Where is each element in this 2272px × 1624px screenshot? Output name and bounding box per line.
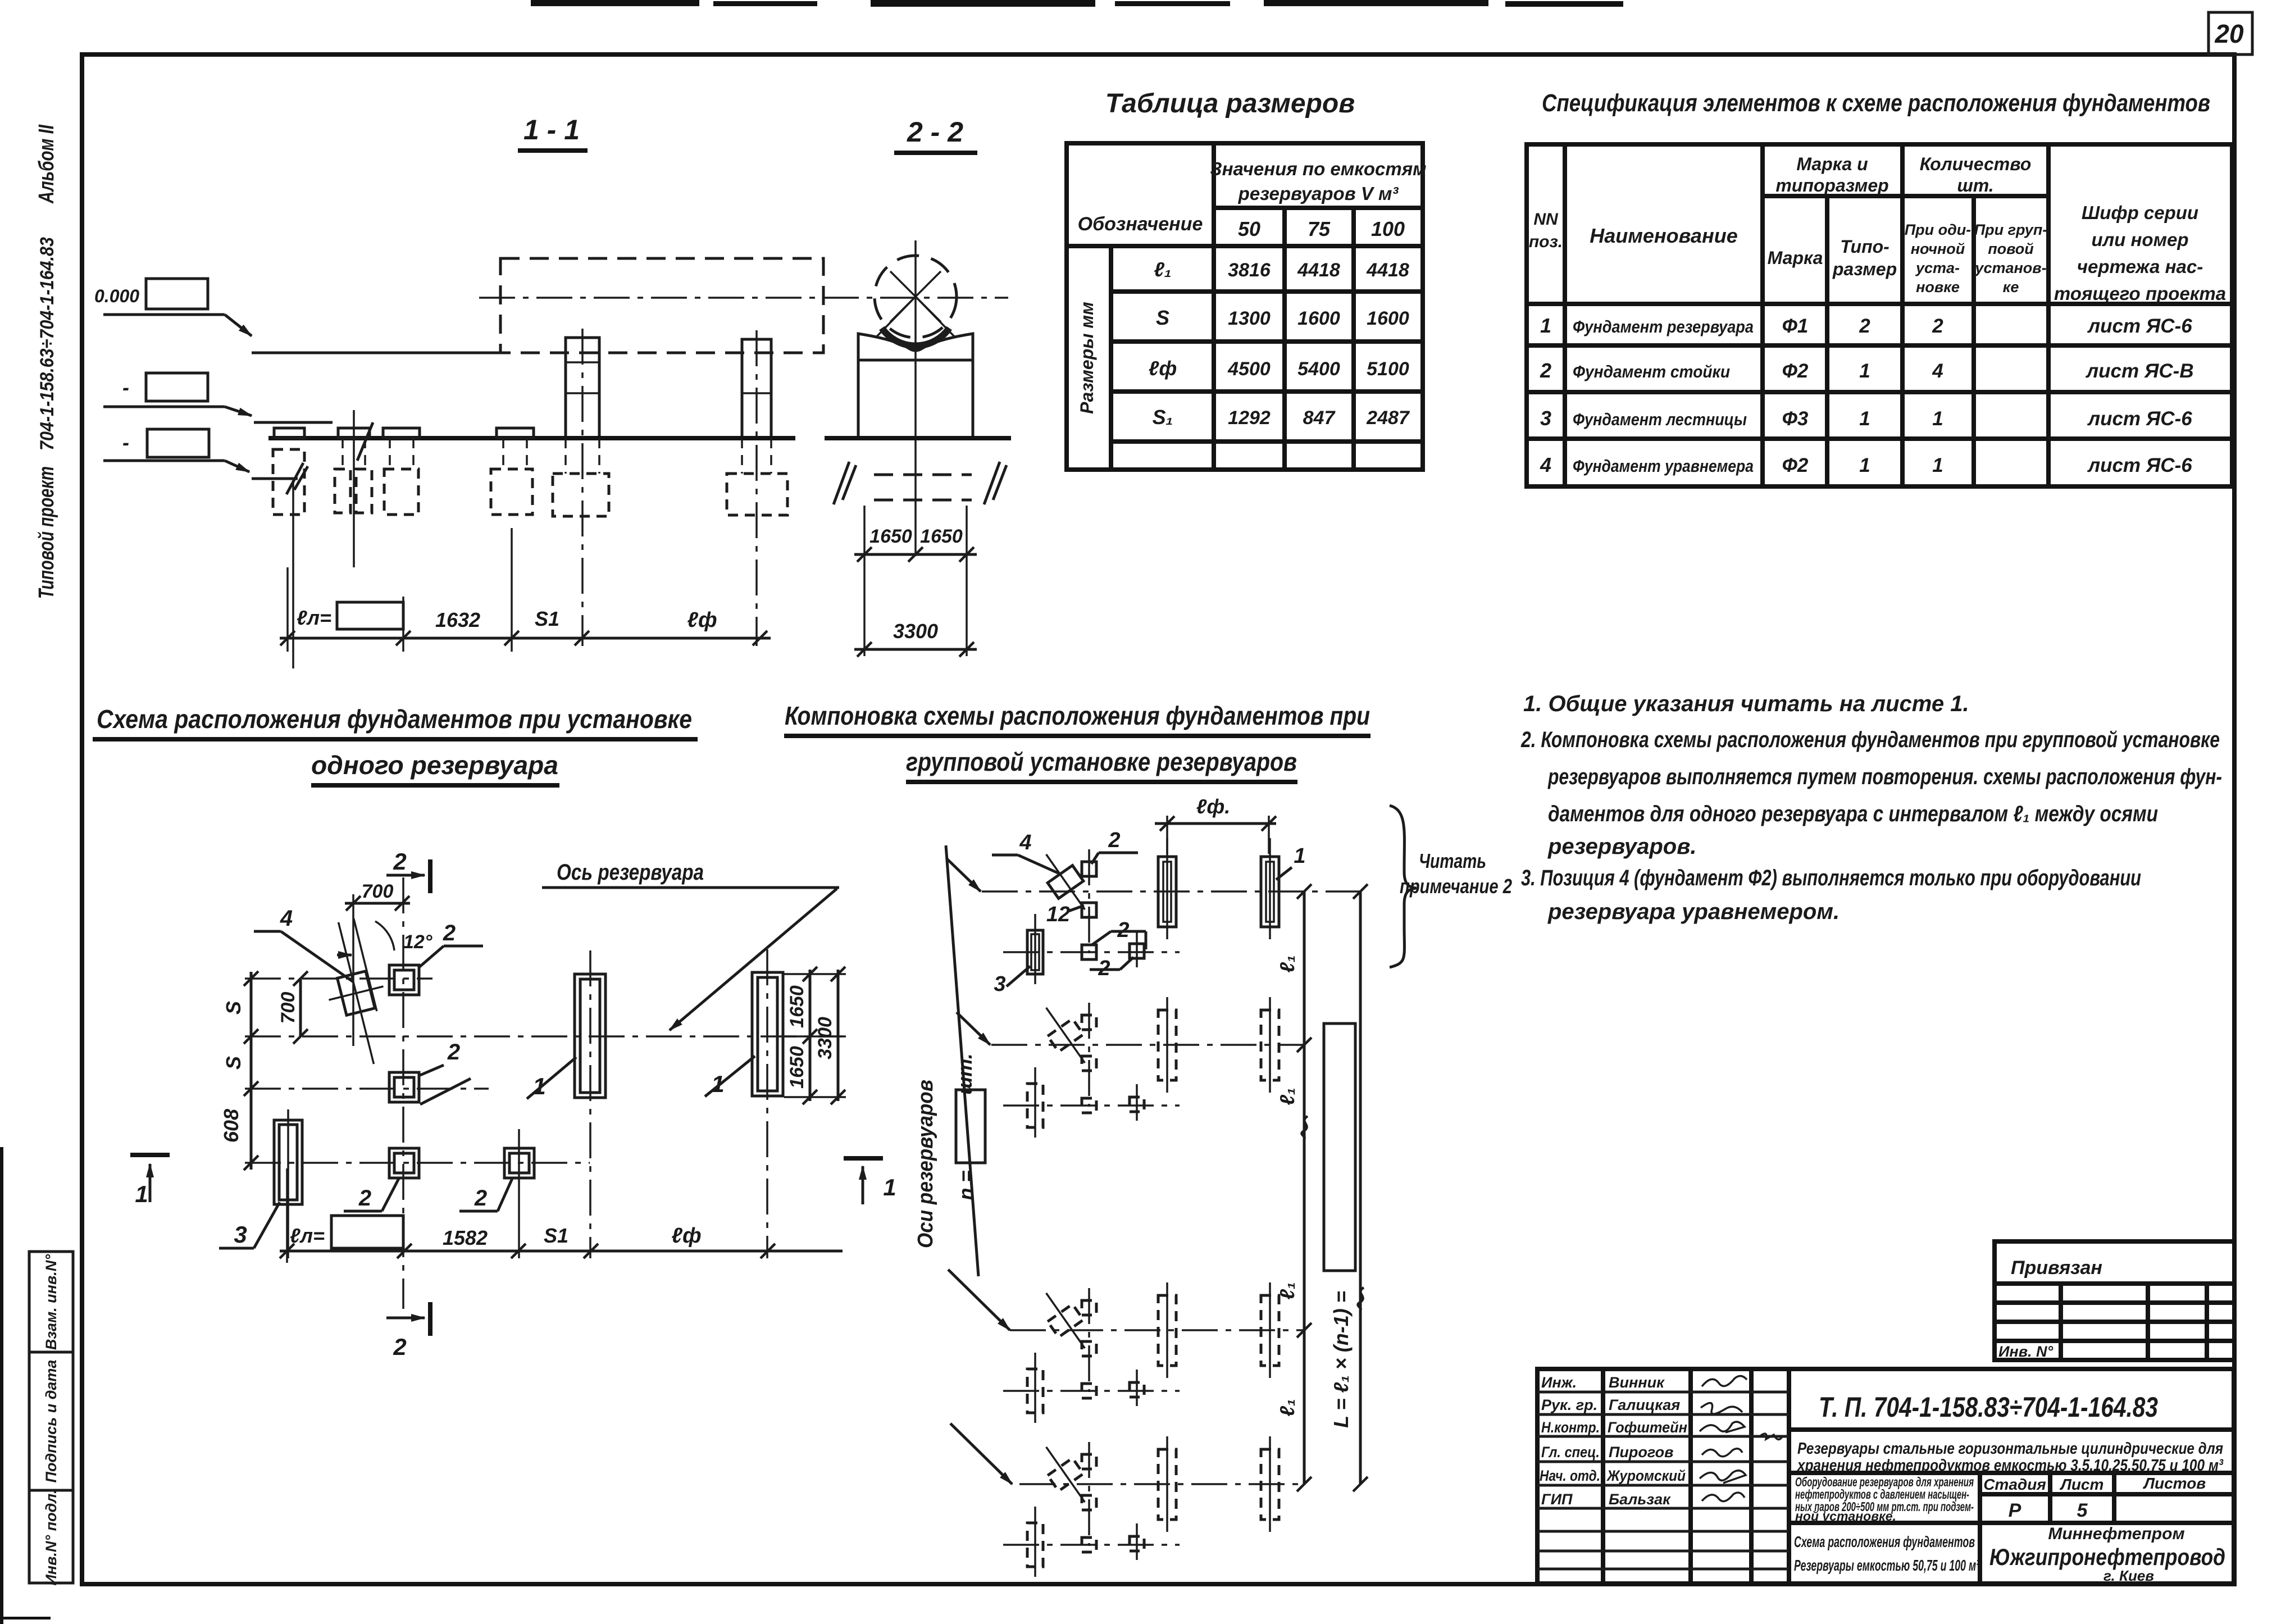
svg-text:размер: размер xyxy=(1832,259,1897,279)
svg-text:1600: 1600 xyxy=(1297,308,1340,329)
scheme 2 row 3 foundation F1 a xyxy=(1158,1282,1176,1378)
svg-text:3: 3 xyxy=(994,972,1005,996)
svg-text:2: 2 xyxy=(1540,359,1551,382)
scan artifact: top edge streaks xyxy=(531,0,1623,7)
leader 3 xyxy=(219,1202,280,1248)
leader 2 row C xyxy=(420,1040,471,1104)
svg-text:даментов для одного резерву: даментов для одного резервуара с интерва… xyxy=(1548,802,2158,826)
leader 2 row D right xyxy=(459,1179,512,1211)
scheme 2 row 4 square 2 below axis xyxy=(1082,1495,1096,1510)
svg-text:Схема расположения фундаментов: Схема расположения фундаментов при устан… xyxy=(97,704,692,734)
svg-text:2: 2 xyxy=(447,1040,460,1065)
foundation F3 stairs (pos 3) xyxy=(274,1109,302,1258)
object description four lines xyxy=(1789,1475,2234,1523)
svg-text:1: 1 xyxy=(135,1181,148,1207)
svg-text:608: 608 xyxy=(220,1109,243,1143)
svg-text:Ф3: Ф3 xyxy=(1782,408,1809,430)
svg-text:2: 2 xyxy=(1932,315,1943,337)
scheme 2 left boundary line xyxy=(946,845,978,1276)
dimension extension verticals 2-2 xyxy=(864,506,967,656)
svg-text:ке: ке xyxy=(2003,279,2019,295)
svg-text:Южгипронефтепровод: Южгипронефтепровод xyxy=(1989,1544,2225,1570)
scheme 2 label 12 xyxy=(1046,903,1084,926)
row B main horizontal axis xyxy=(245,1035,843,1038)
scheme 2 row 3 tilted foundation pos 4 xyxy=(1033,1284,1097,1357)
svg-text:4500: 4500 xyxy=(1227,358,1271,380)
svg-text:-: - xyxy=(122,431,129,454)
svg-text:700: 700 xyxy=(362,881,394,902)
scheme 2 row 2 square 2 upper xyxy=(1082,1003,1096,1107)
angle 12 degrees xyxy=(337,921,432,955)
svg-text:ℓ₁: ℓ₁ xyxy=(1276,1282,1299,1299)
title block outer xyxy=(1537,1369,2234,1584)
left margin rotated stamp text xyxy=(35,124,58,599)
svg-text:ℓф: ℓф xyxy=(687,608,717,632)
svg-text:Т. П. 704-1-158.83÷704-1-164.8: Т. П. 704-1-158.83÷704-1-164.83 xyxy=(1819,1391,2158,1423)
scheme 2 label 1 xyxy=(1276,844,1306,880)
scheme 2 label 2 lower xyxy=(1090,957,1133,980)
scheme 2 label 4 xyxy=(992,831,1060,874)
scheme 2 row 1 square 2 upper xyxy=(1082,849,1096,953)
size table header texts xyxy=(1078,158,1427,240)
svg-text:Инв.N° подл.: Инв.N° подл. xyxy=(43,1489,60,1585)
svg-text:уста-: уста- xyxy=(1915,260,1960,276)
leader 2 top xyxy=(419,921,483,967)
svg-text:4: 4 xyxy=(1540,453,1551,476)
svg-text:5: 5 xyxy=(2077,1500,2088,1521)
scheme 2 row 4 square 2 sub-right xyxy=(1130,1523,1144,1560)
dimension line 1650/1650 xyxy=(854,526,977,562)
svg-text:типоразмер: типоразмер xyxy=(1775,175,1888,195)
section mark 1 right xyxy=(844,1158,896,1204)
svg-text:Шифр серии: Шифр серии xyxy=(2082,202,2198,223)
row C axis line xyxy=(245,1088,489,1090)
svg-text:700: 700 xyxy=(277,992,299,1024)
scheme 2 title line 1 xyxy=(784,701,1371,736)
svg-text:г. Киев: г. Киев xyxy=(2103,1567,2154,1584)
svg-text:Пирогов: Пирогов xyxy=(1609,1444,1673,1461)
svg-text:резервуаров выполняется путе: резервуаров выполняется путем повторения… xyxy=(1547,765,2222,789)
svg-text:новке: новке xyxy=(1916,279,1960,295)
scheme 1 title line 2 xyxy=(311,750,559,785)
svg-text:S1: S1 xyxy=(535,607,559,630)
spec row 3: фундамент лестницы xyxy=(1540,407,2192,430)
organization names xyxy=(1989,1525,2225,1584)
svg-text:установ-: установ- xyxy=(1974,260,2046,276)
scheme 2 row 1 axis with arrow xyxy=(947,859,1360,891)
scheme 2 row 4 axis with arrow xyxy=(950,1423,1304,1484)
scheme 2 label 2 upper xyxy=(1091,829,1138,864)
spec table grid xyxy=(1527,144,2232,486)
dimension label S1 xyxy=(535,607,559,630)
svg-text:75: 75 xyxy=(1308,217,1331,240)
scheme 2 row 2 square 2 sub-left xyxy=(1082,1098,1096,1113)
scheme 2 row 4 square 2 upper xyxy=(1082,1442,1096,1546)
tilted foundation pos 4 (F2 rotated 12deg) xyxy=(311,916,401,1071)
scheme 2 row 3 square 2 sub-left xyxy=(1082,1384,1096,1398)
sheet title two lines xyxy=(1794,1523,1980,1584)
leader 4 xyxy=(254,906,353,982)
left margin strip: Взам. инв.№ / Подпись и дата / Инв.№ подл. xyxy=(29,1252,73,1586)
section mark 2 top xyxy=(386,848,430,893)
svg-text:шт.: шт. xyxy=(1957,175,1993,195)
buried footing under right column (dashed) xyxy=(727,438,787,515)
svg-text:Фундамент стойки: Фундамент стойки xyxy=(1573,362,1730,381)
svg-text:5400: 5400 xyxy=(1297,358,1340,380)
foundation F2 square top row (pos 2) xyxy=(389,965,419,995)
svg-text:2: 2 xyxy=(1108,829,1120,852)
svg-text:ℓл=: ℓл= xyxy=(290,1224,325,1247)
spec row 1: фундамент резервуара xyxy=(1540,314,2192,337)
svg-text:4: 4 xyxy=(280,906,293,931)
size table row L1 xyxy=(1154,258,1409,281)
svg-text:Рук. гр.: Рук. гр. xyxy=(1541,1396,1597,1413)
top dimension 700 xyxy=(345,881,410,1046)
svg-text:2: 2 xyxy=(358,1186,371,1211)
scheme 2 row 2 sub-row axis xyxy=(1003,1104,1180,1107)
svg-text:1632: 1632 xyxy=(435,608,480,631)
size table rotated label Размеры мм xyxy=(1077,302,1097,414)
note brace Читать примечание 2 xyxy=(1390,806,1512,967)
svg-text:5100: 5100 xyxy=(1367,358,1409,380)
svg-text:Привязан: Привязан xyxy=(2011,1257,2102,1279)
elevation mark 2 with leader box xyxy=(103,373,252,416)
spec table header texts xyxy=(1529,154,2226,304)
svg-text:групповой установке резервуаро: групповой установке резервуаров xyxy=(906,747,1297,776)
svg-text:Типо-: Типо- xyxy=(1840,236,1889,257)
svg-text:2487: 2487 xyxy=(1366,407,1410,429)
scheme 2 top dimension lф xyxy=(1155,795,1276,854)
svg-text:Марка и: Марка и xyxy=(1796,154,1868,174)
reservoir outline dashed (section 1-1) xyxy=(500,258,823,353)
svg-text:1: 1 xyxy=(1540,314,1551,337)
level line 3 with break xyxy=(252,463,308,668)
row A axis line xyxy=(245,977,432,980)
scheme 2 row 2 axis with arrow xyxy=(957,1012,1304,1045)
bottom dimension line of section 1-1 xyxy=(280,631,771,645)
foundation F1 right (pos 1) xyxy=(752,949,783,1258)
vertical dimension 700 xyxy=(277,971,308,1044)
scheme 2 outer dimension chain L total xyxy=(1324,884,1368,1491)
reservoir axis line (dash-dot) xyxy=(479,297,1008,299)
notes paragraph xyxy=(1520,692,2222,924)
scheme 1 title line 1 xyxy=(93,704,698,739)
foundation F2 square row D right (pos 2) xyxy=(504,1129,534,1258)
svg-text:ℓ₁: ℓ₁ xyxy=(1276,1088,1299,1105)
section mark 1 left xyxy=(130,1155,170,1207)
scheme 2 title line 2 xyxy=(906,747,1297,782)
svg-text:Бальзак: Бальзак xyxy=(1609,1491,1671,1508)
svg-text:1650: 1650 xyxy=(920,526,963,547)
svg-text:тоящего проекта: тоящего проекта xyxy=(2054,283,2226,304)
staff signatures xyxy=(1700,1376,1747,1501)
scheme 2 row 1 square 2 sub-left xyxy=(1082,945,1096,959)
svg-text:лист ЯС-В: лист ЯС-В xyxy=(2085,360,2193,382)
svg-text:4: 4 xyxy=(1932,360,1943,382)
scheme 2 row 3 foundation F3 xyxy=(1027,1353,1043,1423)
svg-text:1: 1 xyxy=(1859,408,1870,430)
svg-text:лист ЯС-6: лист ЯС-6 xyxy=(2087,454,2192,476)
label Ось резервуара with leader xyxy=(542,860,839,1030)
foundation F2 square row D left (pos 2) xyxy=(389,1148,419,1178)
staff titles column xyxy=(1540,1374,1600,1508)
svg-text:12: 12 xyxy=(1046,903,1070,926)
svg-text:1650: 1650 xyxy=(786,1046,808,1089)
privyazan table xyxy=(1995,1241,2234,1360)
svg-text:Обозначение: Обозначение xyxy=(1078,213,1203,235)
reservoir circle dashed (section 2-2) xyxy=(875,256,957,338)
small saddle stub 2 on ground xyxy=(338,428,370,438)
project name two lines xyxy=(1760,1434,2234,1475)
section mark 2 bottom xyxy=(386,1302,430,1360)
support stand column left (F2 section) xyxy=(566,329,599,646)
scheme 2 row 2 foundation F1 a xyxy=(1158,997,1176,1093)
svg-text:Размеры мм: Размеры мм xyxy=(1077,302,1097,414)
svg-text:Лист: Лист xyxy=(2060,1476,2104,1493)
buried footing under stub 1 (dashed) xyxy=(273,449,304,515)
svg-text:или номер: или номер xyxy=(2091,229,2188,250)
project number big xyxy=(1789,1391,2234,1430)
scheme 2 row 1 sub-row axis xyxy=(1003,951,1180,953)
scheme 2 row 3 square 2 below axis xyxy=(1082,1341,1096,1356)
svg-text:Значения по емкостям: Значения по емкостям xyxy=(1210,158,1426,179)
svg-text:Журомский: Журомский xyxy=(1606,1467,1686,1484)
svg-text:1: 1 xyxy=(1932,408,1943,430)
svg-text:Миннефтепром: Миннефтепром xyxy=(2048,1525,2184,1543)
elevation mark 0.000 with leader box xyxy=(94,279,252,336)
svg-text:примечание 2: примечание 2 xyxy=(1400,875,1512,898)
page number box 20 xyxy=(2209,12,2252,54)
svg-text:1600: 1600 xyxy=(1367,308,1409,329)
scheme 2 label 2 bracket pair xyxy=(1092,918,1146,949)
saddle contact shading 2-2 xyxy=(882,328,949,345)
svg-text:Нач. отд.: Нач. отд. xyxy=(1540,1467,1600,1484)
svg-text:4418: 4418 xyxy=(1366,260,1409,281)
svg-text:ℓл=: ℓл= xyxy=(297,606,331,629)
svg-text:NN: NN xyxy=(1533,210,1559,229)
scan artifact: left edge line xyxy=(0,1147,51,1624)
scheme 2 row 1 foundation F1 a xyxy=(1158,838,1176,939)
scheme 2 inner dimension chain l1 xyxy=(1276,884,1312,1491)
svg-text:100: 100 xyxy=(1371,217,1405,240)
svg-text:3: 3 xyxy=(234,1221,247,1248)
scheme 2 row 3 square 2 sub-right xyxy=(1130,1370,1144,1406)
scheme 2 row 2 square 2 below axis xyxy=(1082,1056,1096,1071)
scheme 2 label 3 xyxy=(994,966,1030,996)
scheme 2 row 4 sub-row axis xyxy=(1003,1544,1180,1546)
ground line of section 1-1 xyxy=(268,422,795,461)
svg-text:ГИП: ГИП xyxy=(1541,1491,1573,1508)
size table row S xyxy=(1156,306,1409,329)
scheme 2 row 1 square 2 sub-right xyxy=(1130,931,1144,967)
spec table title xyxy=(1542,89,2210,117)
svg-text:1. Общие указания читать н: 1. Общие указания читать на листе 1. xyxy=(1523,692,1969,716)
level line at 0.000 xyxy=(252,352,506,354)
svg-text:1: 1 xyxy=(1859,454,1870,476)
dimension label box lл= xyxy=(297,602,403,629)
svg-text:Стадия: Стадия xyxy=(1983,1476,2046,1493)
size table title: Таблица размеров xyxy=(1105,89,1355,119)
svg-text:4418: 4418 xyxy=(1297,260,1340,281)
scheme 2 row 4 foundation F1 a xyxy=(1158,1436,1176,1532)
svg-text:S: S xyxy=(1156,306,1169,329)
svg-text:n =: n = xyxy=(954,1170,977,1200)
svg-text:Фундамент резервуара: Фундамент резервуара xyxy=(1573,317,1754,336)
svg-text:резервуаров.: резервуаров. xyxy=(1547,834,1697,859)
svg-text:1: 1 xyxy=(883,1174,896,1200)
svg-text:Количество: Количество xyxy=(1920,154,2032,174)
spec row 2: фундамент стойки xyxy=(1540,359,2194,382)
scheme 2 row 3 square 2 upper xyxy=(1082,1288,1096,1392)
svg-text:20: 20 xyxy=(2214,19,2244,48)
svg-text:ℓ₁: ℓ₁ xyxy=(1154,258,1171,281)
section title 1-1 xyxy=(518,114,588,151)
svg-text:1: 1 xyxy=(1294,844,1305,868)
svg-text:резервуара уравнемером.: резервуара уравнемером. xyxy=(1547,899,1840,924)
svg-text:50: 50 xyxy=(1238,217,1260,240)
svg-text:Инж.: Инж. xyxy=(1541,1374,1577,1391)
svg-text:поз.: поз. xyxy=(1529,233,1563,251)
scheme 2 row 4 tilted foundation pos 4 xyxy=(1033,1438,1097,1511)
stage/sheet mini table xyxy=(1980,1473,2234,1523)
small saddle stub 1 on ground xyxy=(274,428,304,438)
svg-text:Гл. спец.: Гл. спец. xyxy=(1541,1444,1600,1461)
svg-text:Спецификация элементов к схем: Спецификация элементов к схеме расположе… xyxy=(1542,89,2210,117)
scheme 2 row 2 tilted foundation pos 4 xyxy=(1033,999,1097,1071)
svg-text:Компоновка схемы расположения: Компоновка схемы расположения фундаменто… xyxy=(785,701,1370,730)
buried footing under stub 3 (dashed) xyxy=(384,438,418,515)
scheme1 bottom dimension line xyxy=(280,1168,843,1263)
svg-text:704-1-158.63÷704-1-164.83: 704-1-158.63÷704-1-164.83 xyxy=(37,237,58,451)
buried footing lines 2-2 (dashed) xyxy=(834,462,1007,504)
svg-text:ℓ₁: ℓ₁ xyxy=(1276,955,1299,972)
svg-text:Оси резервуаров: Оси резервуаров xyxy=(914,1080,937,1248)
svg-text:L = ℓ₁ × (n-1) =: L = ℓ₁ × (n-1) = xyxy=(1329,1291,1353,1428)
buried footings under stub 2 (dashed pair) xyxy=(335,410,372,567)
svg-text:Ф1: Ф1 xyxy=(1782,315,1809,337)
svg-text:3: 3 xyxy=(1540,407,1551,430)
foundation F2 square row C (pos 2) xyxy=(389,1072,419,1102)
svg-text:3. Позиция 4 (фундамент Ф2): 3. Позиция 4 (фундамент Ф2) выполняется … xyxy=(1521,866,2141,890)
svg-text:-: - xyxy=(122,376,129,399)
svg-text:2: 2 xyxy=(443,921,456,945)
buried footing under left column (dashed) xyxy=(553,438,609,516)
elevation mark 3 with leader box xyxy=(103,429,249,472)
svg-text:S: S xyxy=(222,1056,245,1070)
svg-text:1292: 1292 xyxy=(1228,407,1271,429)
size table grid xyxy=(1067,143,1423,470)
dimension label lф xyxy=(687,608,717,632)
svg-text:1 - 1: 1 - 1 xyxy=(523,114,580,145)
support stand column right (F2 section) xyxy=(742,330,771,646)
foundation F1 left (pos 1) xyxy=(575,950,605,1258)
leader 1 right xyxy=(705,1056,755,1097)
scheme1 bottom dimension label box lл= xyxy=(290,1216,403,1248)
svg-text:Типовой проект: Типовой проект xyxy=(35,466,58,599)
svg-text:12°: 12° xyxy=(403,931,432,953)
svg-text:повой: повой xyxy=(1988,240,2034,257)
svg-text:3300: 3300 xyxy=(814,1017,836,1059)
buried footing under stub 4 (dashed) xyxy=(491,438,532,515)
svg-text:S1: S1 xyxy=(544,1224,568,1247)
svg-text:одного резервуара: одного резервуара xyxy=(311,750,558,780)
title block staff rows grid xyxy=(1537,1392,1789,1569)
svg-text:0.000: 0.000 xyxy=(94,286,139,306)
scheme 2 row 3 foundation F1 b xyxy=(1261,1282,1279,1378)
right dimension 3300 vertical xyxy=(814,967,845,1104)
scheme 2 row 1 square 2 below axis xyxy=(1082,903,1096,917)
scheme 2 row 4 square 2 sub-left xyxy=(1082,1537,1096,1552)
svg-text:Альбом II: Альбом II xyxy=(35,124,58,204)
svg-text:S: S xyxy=(222,1001,245,1015)
scheme 2 row 1 foundation F1 b xyxy=(1261,838,1279,939)
svg-text:лист ЯС-6: лист ЯС-6 xyxy=(2087,408,2192,430)
level line 2 xyxy=(254,421,333,424)
size table row lф xyxy=(1149,357,1409,380)
svg-text:Ось резервуара: Ось резервуара xyxy=(557,860,704,885)
svg-text:Инв. N°: Инв. N° xyxy=(1998,1343,2054,1360)
svg-text:При груп-: При груп- xyxy=(1974,221,2048,238)
small saddle stub 4 on ground xyxy=(497,428,534,438)
vertical axis of section 2-2 xyxy=(914,240,917,556)
svg-text:Марка: Марка xyxy=(1768,248,1823,268)
svg-text:1582: 1582 xyxy=(443,1226,488,1249)
small saddle stub 3 on ground xyxy=(383,428,420,438)
svg-text:Таблица размеров: Таблица размеров xyxy=(1105,89,1355,119)
dimension line 3300 xyxy=(854,620,977,657)
right dimension 1650/1650 vertical xyxy=(784,967,846,1104)
svg-text:2. Компоновка схемы располож: 2. Компоновка схемы расположения фундаме… xyxy=(1520,727,2220,752)
svg-text:2: 2 xyxy=(393,1334,406,1360)
scheme 2 label n= шт. with box xyxy=(953,1053,985,1200)
svg-text:Н.контр.: Н.контр. xyxy=(1541,1419,1600,1436)
spec row 4: фундамент уравнемера xyxy=(1540,453,2192,476)
scheme 2 row 2 square 2 sub-right xyxy=(1130,1084,1144,1121)
dimension extension verticals 1-1 xyxy=(288,528,512,652)
svg-text:847: 847 xyxy=(1303,407,1336,429)
scheme 2 row 4 foundation F1 b xyxy=(1261,1436,1279,1532)
scheme 2 row 1 foundation F3 xyxy=(1027,914,1043,984)
svg-text:Р: Р xyxy=(2009,1500,2021,1521)
ground line of section 2-2 xyxy=(825,436,1011,440)
svg-text:1300: 1300 xyxy=(1228,308,1271,329)
scheme 2 row 4 foundation F3 xyxy=(1027,1507,1043,1577)
leader 1 left xyxy=(527,1057,576,1099)
row D axis line xyxy=(245,1162,590,1164)
svg-text:Схема расположения фундаментов: Схема расположения фундаментов xyxy=(1794,1533,1975,1550)
svg-text:Резервуары емкостью 50,75 и 1: Резервуары емкостью 50,75 и 100 м³ xyxy=(1794,1557,1979,1574)
left dimension chain S/S/608 xyxy=(220,971,258,1170)
svg-text:2: 2 xyxy=(1859,315,1870,337)
svg-text:лист ЯС-6: лист ЯС-6 xyxy=(2087,315,2192,337)
svg-text:Фундамент лестницы: Фундамент лестницы xyxy=(1573,410,1747,429)
svg-text:1: 1 xyxy=(1932,454,1943,476)
scheme 2 row 3 axis with arrow xyxy=(948,1270,1304,1330)
svg-text:1: 1 xyxy=(1859,360,1870,382)
svg-text:Галицкая: Галицкая xyxy=(1609,1396,1680,1413)
size table row S1 xyxy=(1153,406,1410,429)
scheme 2 row 2 foundation F3 xyxy=(1027,1067,1043,1138)
svg-text:Фундамент уравнемера: Фундамент уравнемера xyxy=(1573,456,1754,476)
leader 2 row D left xyxy=(344,1179,399,1211)
svg-text:2: 2 xyxy=(474,1186,487,1211)
saddle support block 2-2 xyxy=(858,334,973,438)
svg-text:Ф2: Ф2 xyxy=(1782,360,1809,382)
svg-text:ℓф.: ℓф. xyxy=(1196,795,1230,818)
dimension label 1632 xyxy=(435,608,480,631)
svg-text:Подпись и дата: Подпись и дата xyxy=(43,1360,60,1483)
scheme 2 row 3 sub-row axis xyxy=(1003,1390,1180,1392)
